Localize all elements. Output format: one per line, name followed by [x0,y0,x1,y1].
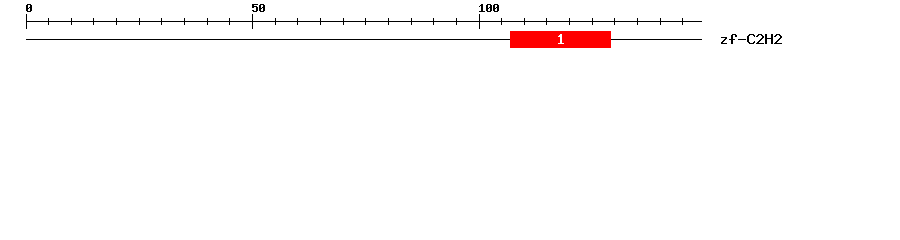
ruler major tick 0 [26,14,27,29]
ruler minor tick 25 [139,18,140,25]
ruler minor tick 55 [275,18,276,25]
ruler minor tick 5 [48,18,49,25]
domain box label 1 [558,34,564,44]
ruler label 0 [26,4,32,12]
ruler minor tick 35 [184,18,185,25]
ruler minor tick 75 [365,18,366,25]
ruler axis line [26,21,702,22]
ruler minor tick 85 [411,18,412,25]
ruler minor tick 135 [637,18,638,25]
background [0,0,900,58]
ruler minor tick 20 [116,18,117,25]
ruler minor tick 130 [614,18,615,25]
domain box 1 [510,31,611,48]
ruler minor tick 95 [456,18,457,25]
ruler minor tick 40 [207,18,208,25]
ruler minor tick 145 [682,18,683,25]
ruler minor tick 15 [93,18,94,25]
ruler major tick 100 [479,14,480,29]
ruler minor tick 125 [592,18,593,25]
ruler minor tick 80 [388,18,389,25]
ruler minor tick 70 [343,18,344,25]
ruler minor tick 105 [501,18,502,25]
ruler minor tick 10 [71,18,72,25]
ruler minor tick 120 [569,18,570,25]
ruler label 50 [252,4,265,12]
domain name zf-C2H2 [721,34,782,44]
ruler minor tick 30 [161,18,162,25]
ruler major tick 50 [252,14,253,29]
ruler minor tick 60 [297,18,298,25]
ruler minor tick 65 [320,18,321,25]
ruler minor tick 90 [433,18,434,25]
ruler minor tick 140 [660,18,661,25]
sequence line [26,39,702,40]
ruler label 100 [479,4,499,12]
ruler minor tick 110 [524,18,525,25]
ruler minor tick 115 [546,18,547,25]
ruler minor tick 45 [229,18,230,25]
